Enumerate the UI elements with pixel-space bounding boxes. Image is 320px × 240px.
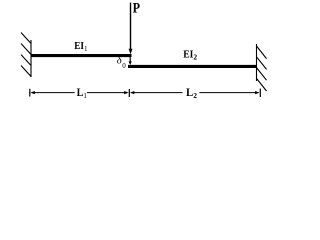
svg-text:0: 0 bbox=[122, 62, 126, 70]
left fixed support wall bbox=[21, 33, 31, 78]
dimension L2 bbox=[130, 89, 260, 98]
svg-text:L2: L2 bbox=[186, 87, 197, 100]
svg-text:L1: L1 bbox=[77, 87, 88, 100]
beam segment EI1 bbox=[31, 54, 132, 57]
svg-text:EI1: EI1 bbox=[74, 40, 88, 53]
right fixed support wall bbox=[257, 44, 267, 91]
deflection arrow delta0 bbox=[129, 57, 132, 65]
svg-text:P: P bbox=[133, 1, 141, 17]
beam segment EI2 bbox=[128, 65, 257, 68]
load arrow P bbox=[129, 3, 133, 55]
dimension L1 bbox=[30, 89, 130, 97]
svg-text:EI2: EI2 bbox=[183, 48, 197, 61]
